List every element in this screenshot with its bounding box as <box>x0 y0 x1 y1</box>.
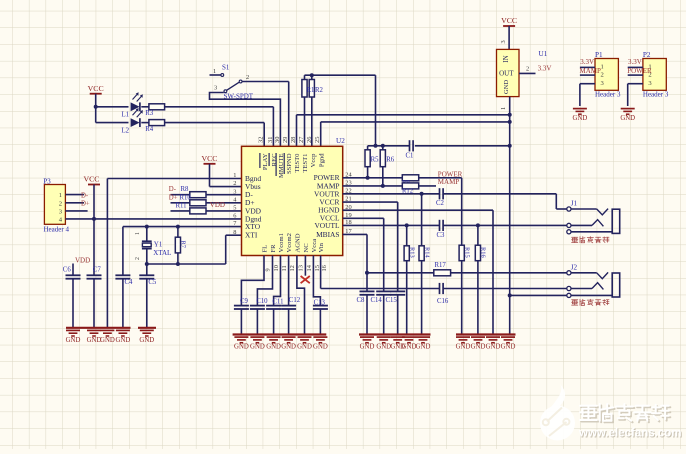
resistor R16 <box>475 225 486 334</box>
svg-text:C16: C16 <box>437 298 449 305</box>
svg-text:P1: P1 <box>595 51 603 59</box>
svg-text:IN: IN <box>502 55 510 62</box>
svg-text:REC: REC <box>271 153 278 166</box>
svg-text:GND: GND <box>297 344 312 351</box>
wire S1 pin2 -> U2 pin29 <box>242 82 289 147</box>
capacitor C8 <box>357 273 375 335</box>
svg-text:13: 13 <box>298 265 305 271</box>
resistor R17 <box>434 262 451 276</box>
capacitor C14 <box>371 291 392 334</box>
capacitor C15 <box>386 291 406 334</box>
capacitor C16 <box>437 283 449 305</box>
wire P1 pin1 <box>580 66 595 68</box>
connector J2 (stereo jack) <box>567 263 620 305</box>
svg-text:GND: GND <box>376 344 391 351</box>
net label 3.3V (P1) <box>580 58 594 66</box>
junction pin22/R14 <box>420 192 424 196</box>
wire U2 pin7 XTO <box>123 227 242 276</box>
resistor R15 <box>459 245 470 334</box>
capacitor C7 <box>87 266 102 328</box>
svg-text:TEST1: TEST1 <box>302 154 309 173</box>
capacitor C11 <box>266 299 283 335</box>
no-ERC marker X <box>301 276 310 283</box>
svg-text:U1: U1 <box>539 50 548 58</box>
svg-text:C11: C11 <box>272 299 283 306</box>
resistor R4 <box>145 120 164 133</box>
pin 3 label U1 <box>500 40 507 43</box>
svg-text:1: 1 <box>135 232 141 235</box>
ground C14 <box>376 337 391 351</box>
net label D- (P3) <box>81 192 89 199</box>
resistor R6 <box>380 146 395 186</box>
ground C9 <box>234 337 249 351</box>
capacitor C3 <box>437 220 446 239</box>
svg-text:GND: GND <box>503 80 510 95</box>
svg-text:C13: C13 <box>314 300 326 307</box>
svg-text:R15: R15 <box>463 247 470 258</box>
svg-text:GND: GND <box>573 115 588 122</box>
junction C1 row right <box>508 144 512 148</box>
wire LED row 2 <box>96 122 265 124</box>
wire R1R2 top -> down to C1 row <box>305 75 376 146</box>
wire U1 gnd vertical <box>509 97 511 335</box>
net label D+ (P3) <box>81 201 90 208</box>
svg-text:1: 1 <box>500 107 507 110</box>
svg-text:C7: C7 <box>93 266 102 273</box>
svg-text:Header 3: Header 3 <box>643 91 669 99</box>
LED L2 <box>122 108 143 134</box>
svg-text:MBIAS: MBIAS <box>316 230 339 239</box>
gnd rail A <box>359 333 431 335</box>
junction R2 top <box>310 73 314 77</box>
svg-text:C4: C4 <box>125 279 134 286</box>
junction R6 bottom <box>381 184 385 188</box>
svg-text:GND: GND <box>281 344 296 351</box>
svg-text:C9: C9 <box>240 298 249 305</box>
wire pin13 AGND <box>297 256 305 335</box>
wire S1 pin3 -> U2 pin30 <box>210 93 281 147</box>
svg-text:C6: C6 <box>63 267 72 274</box>
svg-text:GND: GND <box>416 344 431 351</box>
junction VCC/P3.4 <box>92 217 96 221</box>
svg-text:R13: R13 <box>408 247 415 258</box>
svg-text:26: 26 <box>306 137 313 143</box>
resistor R9 <box>402 175 419 186</box>
resistor R1 <box>302 75 307 146</box>
wire pin17 MBIAS row <box>343 234 367 272</box>
svg-text:D-: D- <box>81 192 89 199</box>
ground C5 <box>139 330 154 344</box>
svg-text:Header 3: Header 3 <box>595 91 621 99</box>
svg-text:3.3V: 3.3V <box>538 65 552 73</box>
svg-text:Header 4: Header 4 <box>44 225 70 233</box>
wire pin28 net <box>297 115 510 147</box>
svg-text:GND: GND <box>402 344 417 351</box>
svg-text:1: 1 <box>59 192 62 199</box>
svg-text:2: 2 <box>233 180 236 187</box>
svg-text:P2: P2 <box>643 51 651 59</box>
resistor R10 <box>169 194 242 205</box>
power VCC (Vbus) <box>201 154 217 187</box>
svg-text:P3: P3 <box>43 177 51 185</box>
wire P3 pin2 <box>65 202 84 204</box>
header P2 <box>643 51 669 99</box>
ground U1 gnd <box>501 337 516 351</box>
svg-text:R17: R17 <box>435 262 447 269</box>
svg-text:FL: FL <box>262 245 269 253</box>
svg-text:XTI: XTI <box>245 231 258 240</box>
svg-text:10: 10 <box>273 265 280 271</box>
ground P1 <box>573 109 588 123</box>
capacitor C13 <box>313 300 328 335</box>
wire pin12 Vcom2 <box>288 256 290 306</box>
gnd rail C5 <box>138 327 156 329</box>
svg-text:3: 3 <box>500 40 507 43</box>
wire L1->pin31 <box>272 107 274 147</box>
svg-text:3.3V: 3.3V <box>580 58 594 66</box>
resistor R3 <box>145 104 164 117</box>
svg-text:32: 32 <box>258 137 265 143</box>
wire pin11 Vcom1 <box>274 256 281 306</box>
svg-text:Y1: Y1 <box>154 241 163 249</box>
LED L1 <box>122 92 143 118</box>
svg-text:GND: GND <box>116 337 131 344</box>
junction R6 top <box>381 144 385 148</box>
svg-text:2: 2 <box>135 257 141 260</box>
svg-text:R2: R2 <box>315 87 324 94</box>
wire R14 drop <box>421 194 423 246</box>
net label MAMP (P1) <box>580 67 602 75</box>
power VCC (LED branch) <box>88 84 104 123</box>
pin 1 label U1 <box>500 107 507 110</box>
svg-text:GND: GND <box>471 344 486 351</box>
svg-text:R6: R6 <box>386 157 395 164</box>
svg-text:R5: R5 <box>371 157 380 164</box>
ground C6 <box>66 330 81 344</box>
connector J1 (stereo jack) <box>567 200 620 243</box>
svg-text:TEST0: TEST0 <box>294 153 301 173</box>
wire U2 pin2 Vbus <box>210 186 242 188</box>
ground C7 <box>87 330 102 344</box>
junction at U1 gnd b <box>508 120 512 124</box>
wire pin19 VCCL row <box>343 218 384 291</box>
svg-text:3: 3 <box>214 85 217 92</box>
svg-text:U2: U2 <box>336 137 345 145</box>
svg-text:MAMP: MAMP <box>580 67 602 75</box>
svg-text:GND: GND <box>360 344 375 351</box>
switch S1 <box>210 64 254 101</box>
svg-text:R8: R8 <box>181 186 190 193</box>
svg-text:POWER: POWER <box>627 67 652 75</box>
svg-text:FR: FR <box>270 244 277 253</box>
svg-text:GND: GND <box>456 344 471 351</box>
svg-text:PLAY: PLAY <box>262 153 269 170</box>
svg-text:30: 30 <box>274 137 281 143</box>
svg-text:27: 27 <box>298 136 305 143</box>
svg-text:C12: C12 <box>289 297 301 304</box>
capacitor C5 <box>139 264 157 328</box>
ground C15 <box>390 337 405 351</box>
ground C10 <box>250 337 265 351</box>
resistor R8 <box>169 186 242 198</box>
svg-text:GND: GND <box>266 344 281 351</box>
svg-text:R4: R4 <box>145 126 154 133</box>
wire U2 pin8 XTI <box>147 235 242 264</box>
svg-text:L2: L2 <box>122 127 130 134</box>
svg-text:Vccp: Vccp <box>310 153 317 168</box>
header P3 <box>43 177 69 233</box>
junction C1 row left <box>374 144 378 148</box>
svg-text:VCC: VCC <box>201 154 217 163</box>
junction pin18/R16 <box>476 223 480 227</box>
wire VCC down to C7 <box>93 219 95 275</box>
wire LED row 1 <box>96 106 274 108</box>
capacitor C6 <box>63 264 81 328</box>
svg-text:www.elecfans.com: www.elecfans.com <box>578 428 681 440</box>
net label POWER <box>438 170 463 178</box>
gnd rail bottom-left <box>66 327 131 329</box>
ground AGND <box>297 337 312 351</box>
svg-text:OUT: OUT <box>499 69 514 77</box>
ground C8 <box>360 337 375 351</box>
svg-text:C8: C8 <box>357 297 366 304</box>
svg-text:6: 6 <box>233 213 236 220</box>
svg-text:D+: D+ <box>81 201 90 208</box>
svg-text:9: 9 <box>265 268 272 271</box>
capacitor C12 <box>281 297 301 334</box>
net label POWER (P2) <box>627 67 652 75</box>
wire P3 pin3 <box>65 210 87 212</box>
svg-text:3: 3 <box>233 188 236 195</box>
pin numbers U2 <box>233 136 352 272</box>
svg-text:Vin: Vin <box>318 242 325 252</box>
svg-text:GND: GND <box>66 337 81 344</box>
wire P3 pin1 <box>65 194 84 196</box>
svg-text:C14: C14 <box>371 297 383 304</box>
resistor R14 <box>419 245 430 334</box>
svg-text:Pgnd: Pgnd <box>318 153 325 167</box>
ground R15 <box>456 337 471 351</box>
wire pin23 MAMP row <box>343 185 436 187</box>
label R1R2 <box>307 87 324 94</box>
wire U2 pin1 Bgnd <box>107 179 241 328</box>
ground HGND <box>486 337 501 351</box>
svg-text:25: 25 <box>314 137 321 143</box>
wire pin20 HGND row <box>343 210 493 334</box>
wire pin25 net <box>321 122 510 146</box>
wire pin22 VOUTR row <box>343 194 567 209</box>
wire pin16 -> J2 <box>321 256 567 289</box>
power VCC (P3) <box>83 175 100 219</box>
svg-text:R11: R11 <box>176 202 187 209</box>
wire pin9 FL <box>241 256 264 306</box>
net label VDD (C6) <box>75 257 90 265</box>
svg-text:NC: NC <box>303 243 310 253</box>
wire P2 pin1 <box>628 66 643 68</box>
net label 3.3V (U1) <box>538 65 552 73</box>
svg-text:VCC: VCC <box>501 16 517 25</box>
wire L2->pin32 <box>263 123 265 147</box>
ground R14 <box>416 337 431 351</box>
svg-text:28: 28 <box>290 137 297 143</box>
svg-text:C1: C1 <box>406 153 414 160</box>
wire pin21 VCCR row <box>343 202 398 291</box>
junction XTO/R7 <box>176 225 180 229</box>
net label 3.3V (P2) <box>628 58 642 66</box>
resistor R7 <box>175 227 186 264</box>
header P1 <box>595 51 621 99</box>
svg-text:2: 2 <box>59 200 62 207</box>
gnd rail center <box>233 333 327 335</box>
svg-text:GND: GND <box>139 337 154 344</box>
junction MBIAS/C8 <box>365 271 369 275</box>
svg-text:GND: GND <box>486 344 501 351</box>
resistor R11 <box>171 202 242 214</box>
svg-text:VCC: VCC <box>88 84 104 93</box>
pin 2 label U1 <box>526 66 529 73</box>
svg-text:Vcom1: Vcom1 <box>278 233 285 252</box>
svg-text:XTAL: XTAL <box>153 249 171 257</box>
junction J2 sleeve/U1 gnd <box>508 293 512 297</box>
svg-text:1: 1 <box>601 63 604 70</box>
wire MBIAS -> J2 <box>367 272 567 274</box>
capacitor C1 <box>406 140 414 159</box>
wire pin10 FR <box>257 256 272 306</box>
svg-text:L1: L1 <box>122 112 130 119</box>
resistor R13 <box>404 225 415 334</box>
resistor R12 <box>402 183 419 195</box>
svg-text:GND: GND <box>234 344 249 351</box>
ground C13 <box>313 337 328 351</box>
wire pin18 VOUTL row <box>343 224 567 226</box>
junction VCC/L1 <box>94 105 98 109</box>
net label VDD (pin5) <box>210 201 225 209</box>
svg-text:AGND: AGND <box>295 233 302 252</box>
ground R16 <box>471 337 486 351</box>
svg-text:J2: J2 <box>571 263 578 271</box>
junction XTI/Y1 <box>145 262 149 266</box>
capacitor C10 <box>250 298 268 334</box>
svg-text:GND: GND <box>100 337 115 344</box>
ground Bgnd <box>100 330 115 344</box>
svg-text:R10: R10 <box>180 194 192 201</box>
svg-text:Vcca: Vcca <box>311 239 318 253</box>
junction XTO/Y1 <box>145 225 149 229</box>
svg-text:J1: J1 <box>571 200 578 208</box>
svg-text:R1: R1 <box>307 87 315 94</box>
svg-text:GND: GND <box>501 344 516 351</box>
svg-text:Vcom2: Vcom2 <box>286 233 293 252</box>
junction R5 bottom <box>366 176 370 180</box>
wire P2 pin3 <box>628 84 643 106</box>
junction at U1 gnd a <box>508 113 512 117</box>
svg-text:2: 2 <box>601 72 604 79</box>
svg-text:C3: C3 <box>437 232 446 239</box>
wire C1 row <box>368 145 510 147</box>
svg-text:8: 8 <box>233 229 236 236</box>
svg-text:R16: R16 <box>480 247 487 258</box>
svg-text:1: 1 <box>213 68 216 75</box>
ground P2 <box>620 109 635 123</box>
ground R13 <box>402 337 417 351</box>
svg-text:D-: D- <box>169 186 177 193</box>
wire P2 pin2 <box>628 74 643 76</box>
svg-text:2: 2 <box>526 66 529 73</box>
regulator U1 <box>497 49 548 96</box>
wire pin24 POWER row <box>343 178 462 245</box>
svg-text:GND: GND <box>620 115 635 122</box>
net label MAMP <box>438 178 460 186</box>
power VCC (U1) <box>501 16 517 49</box>
wire P3 pin4 -> U2 Dgnd <box>65 218 241 220</box>
svg-text:3.3V: 3.3V <box>628 58 642 66</box>
svg-text:VCC: VCC <box>83 175 99 184</box>
svg-text:R14: R14 <box>423 247 430 258</box>
junction pin18/R13 <box>405 223 409 227</box>
svg-text:1: 1 <box>233 172 236 179</box>
capacitor C9 <box>234 298 249 334</box>
op-amp U2 (main IC) <box>242 137 346 256</box>
svg-text:S1: S1 <box>222 64 230 72</box>
svg-text:29: 29 <box>282 137 289 143</box>
junction XTI/R7 <box>176 262 180 266</box>
svg-text:11: 11 <box>281 265 288 271</box>
svg-text:MAMP: MAMP <box>438 178 460 186</box>
capacitor C2 <box>436 188 445 207</box>
gnd rail B <box>456 333 516 335</box>
svg-text:16: 16 <box>321 265 328 271</box>
svg-text:31: 31 <box>267 137 274 143</box>
wire pin15 Vcca <box>313 256 320 306</box>
svg-text:R3: R3 <box>145 110 154 117</box>
svg-text:C5: C5 <box>148 279 157 286</box>
svg-text:12: 12 <box>289 265 296 271</box>
crystal Y1 <box>135 227 172 264</box>
svg-text:SSPND: SSPND <box>286 153 293 174</box>
svg-text:VDD: VDD <box>75 257 90 265</box>
wire U1 out <box>519 72 536 74</box>
svg-text:D+: D+ <box>169 194 178 201</box>
svg-text:VDD: VDD <box>210 201 225 209</box>
wire J2 sleeve <box>510 294 567 296</box>
svg-text:C2: C2 <box>436 200 445 207</box>
svg-text:C10: C10 <box>256 298 268 305</box>
wire P1 pin3 <box>580 84 595 106</box>
ground C11 <box>266 337 281 351</box>
watermark elecfans logo <box>540 384 682 441</box>
wire P1 pin2 <box>580 74 595 76</box>
ground C12 <box>281 337 296 351</box>
svg-text:VOUTL: VOUTL <box>314 221 340 230</box>
svg-text:2: 2 <box>246 74 249 81</box>
svg-text:GND: GND <box>313 344 328 351</box>
svg-text:C15: C15 <box>386 297 398 304</box>
ground C4 <box>116 330 131 344</box>
svg-text:5: 5 <box>233 205 236 212</box>
capacitor C4 <box>115 275 133 328</box>
svg-text:14: 14 <box>306 264 313 271</box>
resistor R2 <box>309 75 314 146</box>
resistor R5 <box>365 146 379 178</box>
svg-text:GND: GND <box>250 344 265 351</box>
wire pin14 NC <box>304 256 306 276</box>
svg-text:R7: R7 <box>179 241 186 249</box>
